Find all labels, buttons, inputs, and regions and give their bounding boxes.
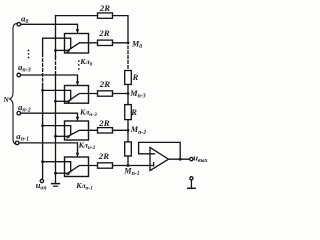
svg-text:2R: 2R [99, 3, 110, 13]
svg-text:2R: 2R [99, 79, 110, 89]
svg-text:2R: 2R [98, 28, 109, 38]
svg-text:2R: 2R [98, 151, 109, 161]
svg-text:N: N [2, 95, 9, 104]
svg-text:R: R [132, 72, 139, 82]
svg-text:R: R [130, 107, 137, 117]
svg-text:2R: 2R [98, 118, 109, 128]
